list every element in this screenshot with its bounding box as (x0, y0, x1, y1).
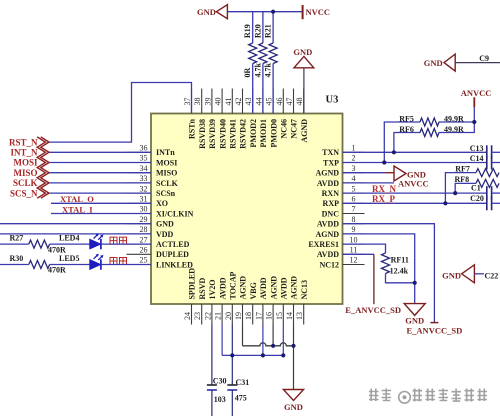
pin 38 RSVD38 (top) (201, 89, 203, 114)
AGND bus (243, 343, 294, 346)
pin 43 PMOD2 (top) (252, 89, 254, 114)
wire pin 2 TXP to C14 (343, 162, 487, 164)
capacitor C20 (486, 196, 488, 210)
svg-text:GND: GND (293, 47, 312, 57)
pin 26 DUPLED (left) (127, 253, 152, 255)
pin 6 RXP (right) (343, 202, 365, 204)
svg-text:MOSI: MOSI (13, 158, 38, 168)
wire left edge to R30 (0, 264, 29, 266)
svg-text:40: 40 (214, 98, 223, 106)
wire RF7 left leg (445, 173, 476, 204)
svg-text:GND: GND (424, 58, 443, 68)
wire pin 19 AGND down (242, 325, 244, 346)
svg-text:GND: GND (156, 220, 174, 229)
pin 5 RXN (right) (343, 192, 365, 194)
pin 33 SCLK (left) (127, 182, 152, 184)
wire LED4 to chip (101, 243, 151, 245)
svg-text:NC12: NC12 (319, 260, 339, 269)
svg-text:24: 24 (183, 312, 192, 320)
svg-text:DNC: DNC (322, 209, 340, 218)
svg-text:TOCAP: TOCAP (229, 272, 238, 300)
wire top to R20 (262, 12, 264, 43)
svg-text:ANVCC: ANVCC (461, 88, 492, 98)
svg-text:44: 44 (254, 98, 263, 106)
junction pin 16 at AGND bus (271, 344, 275, 348)
resistor R19 (249, 43, 257, 64)
svg-text:RF8: RF8 (455, 175, 470, 184)
svg-text:AVDD: AVDD (317, 250, 339, 259)
LED LED5 (90, 260, 101, 270)
svg-text:NC13: NC13 (300, 280, 309, 300)
svg-text:RF6: RF6 (399, 125, 414, 134)
svg-text:1: 1 (352, 144, 356, 153)
wire C31 to bottom edge (231, 390, 233, 416)
wire pin 6 RXP to C20 (343, 202, 487, 204)
pin 23 RSVD (bottom) (201, 304, 203, 325)
svg-text:42: 42 (234, 98, 243, 106)
svg-text:AGND: AGND (315, 169, 339, 178)
svg-text:21: 21 (214, 312, 223, 320)
svg-text:45: 45 (265, 98, 274, 106)
svg-text:20: 20 (224, 312, 233, 320)
pin 46 NC46 (top) (282, 89, 284, 114)
resistor RF7 (476, 169, 499, 177)
svg-text:LED5: LED5 (59, 254, 79, 263)
svg-text:9: 9 (352, 225, 356, 234)
wire RF6 right leg (439, 122, 474, 133)
resistor RF5 (420, 118, 439, 126)
wire pin 16 AGND down (272, 325, 274, 346)
junction at R21 top (271, 10, 275, 14)
wire C1 to edge (492, 192, 500, 194)
svg-text:23: 23 (193, 312, 202, 320)
svg-text:AVDD: AVDD (280, 277, 289, 299)
resistor R20 (259, 43, 267, 64)
svg-text:26: 26 (140, 246, 148, 255)
svg-text:R27: R27 (10, 234, 24, 243)
pin 25 LINKLED (left) (127, 264, 152, 266)
pin 12 NC12 (right) (343, 264, 365, 266)
svg-text:RST_N: RST_N (9, 137, 38, 147)
pin 42 RSVD42 (top) (242, 89, 244, 114)
svg-text:5: 5 (352, 184, 356, 193)
svg-text:3: 3 (352, 164, 356, 173)
svg-text:DUPLED: DUPLED (156, 250, 189, 259)
svg-text:PMOD2: PMOD2 (249, 119, 258, 147)
svg-text:31: 31 (140, 195, 148, 204)
pin 34 MISO (left) (127, 172, 152, 174)
wire pin 3 AGND (343, 172, 387, 174)
svg-text:43: 43 (244, 97, 253, 105)
svg-text:SCLK: SCLK (13, 178, 38, 188)
svg-text:14: 14 (285, 312, 294, 320)
junction pin 15 at AVDD bus (281, 353, 285, 357)
svg-text:AGND: AGND (315, 230, 339, 239)
pin 32 SCSn (left) (127, 192, 152, 194)
resistor RF6 (420, 129, 439, 137)
pin 21 AVDD (bottom) (221, 304, 223, 325)
pin 28 VDD (left) (127, 233, 152, 235)
wire pin 20 TOCAP to C31 (231, 325, 233, 386)
wire R27 to LED4 (50, 243, 90, 245)
svg-text:15: 15 (275, 312, 284, 320)
svg-text:GND: GND (197, 7, 216, 17)
pin 37 RSTn (top) (191, 89, 193, 114)
junction RF7 at pin6 row (443, 201, 447, 205)
svg-text:GND: GND (284, 402, 303, 412)
pin 27 ACTLED (left) (127, 243, 152, 245)
capacitor C1 (486, 186, 488, 200)
svg-text:36: 36 (140, 144, 148, 153)
svg-text:TXP: TXP (323, 158, 339, 167)
wire SCS_N to pin 32 (49, 192, 151, 194)
svg-text:E_ANVCC_SD: E_ANVCC_SD (407, 326, 463, 336)
svg-text:R20: R20 (253, 24, 262, 38)
wire MISO to pin 34 (49, 172, 151, 174)
svg-text:RSTn: RSTn (188, 118, 197, 139)
pin 3 AGND (right) (343, 172, 365, 174)
AVDD bus (222, 354, 283, 356)
wire VDD net to pin 28 (0, 233, 151, 235)
pin 11 AVDD (right) (343, 253, 365, 255)
svg-text:AGND: AGND (269, 276, 278, 300)
svg-text:28: 28 (140, 225, 148, 234)
resistor RF8 (476, 179, 499, 187)
wire R19 to pin 43 (252, 64, 254, 114)
wire LED5 to chip (101, 264, 151, 266)
wire pin 14 AGND to GND (293, 325, 295, 390)
svg-text:RSVD40: RSVD40 (218, 119, 227, 149)
svg-text:RX_P: RX_P (372, 194, 395, 204)
svg-text:19: 19 (234, 312, 243, 320)
junction C31 wire at AVDD bus (230, 353, 234, 357)
resistor R21 (269, 43, 277, 64)
wire MOSI to pin 35 (49, 162, 151, 164)
svg-text:8: 8 (352, 215, 356, 224)
svg-text:AVDD: AVDD (317, 220, 339, 229)
svg-text:38: 38 (193, 98, 202, 106)
wire GND to pin 48 (303, 68, 305, 114)
wire pin 22 1V2O to C30 (211, 325, 213, 386)
wire top to R19 (252, 12, 254, 43)
LED LED4 (90, 239, 101, 249)
wire RF5 to ANVCC (439, 121, 474, 123)
svg-text:12: 12 (350, 256, 358, 265)
junction RF5/ANVCC (472, 120, 476, 124)
wire R30 to LED5 (50, 264, 90, 266)
pin 4 AVDD (right) (343, 182, 365, 184)
svg-text:XI/CLKIN: XI/CLKIN (156, 209, 194, 218)
svg-text:LED4: LED4 (59, 234, 79, 243)
capacitor C13 (486, 145, 488, 159)
svg-text:37: 37 (183, 98, 192, 106)
pin 1 TXN (right) (343, 151, 365, 153)
wire ANVCC down (473, 107, 475, 122)
svg-text:48: 48 (295, 98, 304, 106)
pin 41 RSVD41 (top) (231, 89, 233, 114)
svg-text:MISO: MISO (13, 168, 37, 178)
pin 14 AGND (bottom) (293, 304, 295, 325)
wire pin 5 RXN to C1 (343, 192, 487, 194)
pin 13 NC13 (bottom) (303, 304, 305, 325)
wire R21 to pin 45 (272, 64, 274, 114)
svg-text:32: 32 (140, 184, 148, 193)
svg-text:PMOD1: PMOD1 (259, 119, 268, 147)
svg-text:INTn: INTn (156, 148, 175, 157)
svg-text:AVDD: AVDD (259, 277, 268, 299)
svg-text:R21: R21 (264, 24, 273, 38)
svg-text:C1: C1 (471, 183, 481, 192)
wire C14 to edge (492, 162, 500, 164)
junction RF11/pin9 net (413, 281, 417, 285)
svg-text:RX_N: RX_N (372, 184, 396, 194)
svg-text:RSVD: RSVD (198, 277, 207, 299)
wire XTAL_O to pin 31 (XO) (51, 202, 151, 204)
pin 9 AGND (right) (343, 233, 365, 235)
svg-text:103: 103 (214, 395, 226, 404)
svg-text:13: 13 (295, 312, 304, 320)
pin 35 MOSI (left) (127, 162, 152, 164)
wire pin 21 AVDD down (221, 325, 223, 356)
off-page connector chevrons (37, 137, 45, 198)
svg-text:12.4k: 12.4k (390, 266, 409, 275)
wire XTAL_I to pin 30 (XI/CLKIN) (51, 213, 151, 215)
svg-text:SCS_N: SCS_N (10, 188, 38, 198)
svg-text:33: 33 (140, 174, 148, 183)
svg-text:ACTLED: ACTLED (156, 240, 190, 249)
pin 30 XI/CLKIN (left) (127, 213, 152, 215)
svg-text:17: 17 (254, 312, 263, 320)
wire R20 to pin 44 (262, 64, 264, 114)
svg-text:C22: C22 (485, 271, 499, 280)
pin 44 PMOD1 (top) (262, 89, 264, 114)
capacitor C31 (227, 384, 237, 386)
pin 19 AGND (bottom) (242, 304, 244, 325)
wire pin 9 AGND down (343, 234, 415, 304)
wire GND to NVCC (top) (228, 11, 303, 13)
pin 16 AGND (bottom) (272, 304, 274, 325)
pin 17 AVDD (bottom) (262, 304, 264, 325)
svg-text:6: 6 (352, 195, 356, 204)
svg-text:34: 34 (140, 164, 148, 173)
svg-text:NC47: NC47 (290, 119, 299, 139)
svg-text:VDD: VDD (156, 230, 174, 239)
pin 39 RSVD39 (top) (211, 89, 213, 114)
svg-text:RSVD42: RSVD42 (239, 119, 248, 149)
wire left edge to R27 (0, 243, 29, 245)
resistor R27 (29, 240, 50, 248)
svg-text:RF11: RF11 (391, 256, 409, 265)
wire RST_N to pin 37 (RSTn) (49, 83, 192, 143)
svg-text:C31: C31 (236, 378, 250, 387)
pin 10 EXRES1 (right) (343, 243, 365, 245)
svg-text:10: 10 (350, 235, 358, 244)
svg-text:27: 27 (140, 235, 148, 244)
svg-text:AGND: AGND (239, 276, 248, 300)
capacitor C14 (486, 156, 488, 170)
svg-text:XO: XO (156, 199, 168, 208)
wire pin 11 AVDD to E_ANVCC_SD (343, 253, 374, 255)
wire pin 10 EXRES1 to RF11 (343, 244, 386, 253)
junction RF5 at pin2 row (382, 160, 386, 164)
pin 36 INTn (left) (127, 151, 152, 153)
junction pin 14 at AGND bus (291, 344, 295, 348)
pin 45 PMOD0 (top) (272, 89, 274, 114)
wire C13 to edge (492, 151, 500, 153)
svg-text:INT_N: INT_N (10, 148, 38, 158)
junction pin 17 at AVDD bus (261, 353, 265, 357)
wire GND net to pin 29 (0, 223, 151, 225)
wire top to R21 (272, 12, 274, 43)
pin 15 AVDD (bottom) (282, 304, 284, 325)
pin 22 1V2O (bottom) (211, 304, 213, 325)
pin 47 NC47 (top) (293, 89, 295, 114)
svg-text:MISO: MISO (156, 169, 177, 178)
svg-text:47: 47 (285, 98, 294, 106)
svg-text:AVDD: AVDD (317, 179, 339, 188)
svg-text:SCLK: SCLK (156, 179, 179, 188)
svg-text:EXRES1: EXRES1 (308, 240, 339, 249)
power port NVCC (302, 5, 304, 19)
wire RF8 left leg (455, 183, 476, 193)
svg-text:RF5: RF5 (399, 114, 414, 123)
wire RF6 left leg (394, 133, 420, 153)
svg-text:NC46: NC46 (280, 119, 289, 139)
svg-text:ANVCC: ANVCC (398, 179, 429, 189)
svg-text:C9: C9 (479, 54, 489, 63)
svg-text:29: 29 (140, 215, 148, 224)
wire GND to C22 (474, 273, 484, 275)
pin 2 TXP (right) (343, 162, 365, 164)
svg-text:VBG: VBG (249, 282, 258, 299)
svg-text:E_ANVCC_SD: E_ANVCC_SD (345, 305, 401, 315)
pin 20 TOCAP (bottom) (231, 304, 233, 325)
junction RF8 at pin5 row (453, 191, 457, 195)
svg-text:RSVD41: RSVD41 (229, 119, 238, 149)
power arrow GND/ANVCC (394, 166, 406, 181)
pin 7 DNC (right) (343, 213, 365, 215)
svg-text:RXN: RXN (322, 189, 340, 198)
pin 48 AGND (top) (303, 89, 305, 114)
wire pin 17 AVDD down (262, 325, 264, 356)
svg-text:11: 11 (350, 246, 358, 255)
pin 18 VBG (bottom) (252, 304, 254, 325)
pin 8 AVDD (right) (343, 223, 365, 225)
svg-text:470R: 470R (48, 266, 66, 275)
svg-text:TXN: TXN (322, 148, 339, 157)
pin 29 GND (left) (127, 223, 152, 225)
pin 40 RSVD40 (top) (221, 89, 223, 114)
svg-text:25: 25 (140, 256, 148, 265)
capacitor C30 (207, 384, 217, 386)
svg-text:NVCC: NVCC (306, 7, 331, 17)
svg-text:RF7: RF7 (455, 164, 470, 173)
svg-text:AGND: AGND (290, 276, 299, 300)
svg-text:475: 475 (235, 393, 247, 402)
ground symbol right-bottom (404, 304, 425, 316)
wire pin 8 AVDD to E_ANVCC_SD (343, 224, 435, 322)
resistor RF11 (382, 253, 390, 273)
svg-text:SCSn: SCSn (156, 189, 176, 198)
svg-text:41: 41 (224, 98, 233, 106)
svg-text:7: 7 (352, 205, 356, 214)
wire pin 4 AVDD (343, 182, 395, 184)
svg-text:PMOD0: PMOD0 (269, 119, 278, 147)
svg-text:RSVD39: RSVD39 (208, 119, 217, 149)
svg-text:4.7k: 4.7k (253, 63, 262, 78)
svg-text:GND: GND (405, 316, 424, 326)
svg-text:39: 39 (203, 98, 212, 106)
svg-text:4.7k: 4.7k (264, 63, 273, 78)
svg-text:16: 16 (265, 312, 274, 320)
svg-text:0R: 0R (243, 67, 252, 77)
pin 31 XO (left) (127, 202, 152, 204)
svg-text:AGND: AGND (300, 119, 309, 143)
svg-text:AVDD: AVDD (218, 277, 227, 299)
wire RF11 to GND net (386, 274, 415, 283)
svg-text:35: 35 (140, 154, 148, 163)
svg-text:2: 2 (352, 154, 356, 163)
wire pin 1 TXN to C13 (343, 151, 487, 153)
svg-text:U3: U3 (326, 95, 339, 106)
svg-text:R19: R19 (243, 24, 252, 38)
svg-text:C30: C30 (213, 377, 227, 386)
svg-text:18: 18 (244, 312, 253, 320)
svg-text:1V2O: 1V2O (208, 280, 217, 300)
svg-text:C20: C20 (470, 194, 484, 203)
wire C20 to edge (492, 202, 500, 204)
svg-text:SPDLED: SPDLED (188, 268, 197, 300)
label 蓝色 of LED4 (110, 237, 117, 244)
svg-text:C13: C13 (470, 144, 484, 153)
wire INT_N to pin 36 (49, 151, 151, 153)
svg-text:MOSI: MOSI (156, 158, 177, 167)
wire pin 15 AVDD down (282, 325, 284, 356)
svg-text:RXP: RXP (323, 199, 340, 208)
label 红色 of LED5 (110, 258, 117, 265)
svg-text:46: 46 (275, 98, 284, 106)
svg-text:RSVD38: RSVD38 (198, 119, 207, 149)
resistor R30 (29, 261, 50, 269)
ground symbol bottom (283, 390, 303, 401)
svg-text:30: 30 (140, 205, 148, 214)
wire SCLK to pin 33 (49, 182, 151, 184)
svg-text:GND: GND (442, 270, 461, 280)
svg-text:R30: R30 (10, 254, 24, 263)
svg-text:C14: C14 (470, 154, 484, 163)
IC U3 body (151, 114, 343, 305)
watermark (370, 390, 488, 405)
svg-text:22: 22 (203, 312, 212, 320)
junction RF6 at pin1 row (392, 150, 396, 154)
svg-text:4: 4 (352, 174, 356, 183)
pin 24 SPDLED (bottom) (191, 304, 193, 325)
wire C30 to bottom edge (211, 390, 213, 416)
wire GND to C9 (455, 62, 500, 64)
wire RF5 left leg (384, 122, 420, 163)
